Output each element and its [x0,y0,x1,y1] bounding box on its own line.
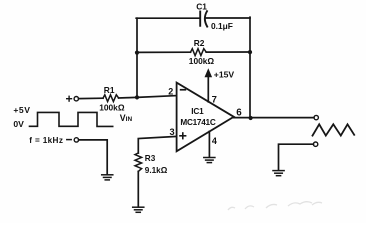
wire: R2 row right segment [206,51,250,53]
svg-text:MC1741C: MC1741C [180,118,215,127]
svg-text:9.1kΩ: 9.1kΩ [145,166,168,175]
svg-text:C1: C1 [196,1,207,11]
faint scan artifacts bottom [228,202,322,210]
source - terminal circle [74,138,78,142]
junction dot (output / right rail) [249,116,253,120]
junction dot (R1 / left rail) [135,95,139,99]
junction dot (left rail / R2) [135,51,139,55]
wire: R3 to ground [137,171,139,206]
svg-text:4: 4 [212,136,217,146]
wire: left rail vertical [136,18,138,97]
ground symbol (output return) [273,171,284,176]
wire: right rail vertical [249,17,251,118]
op-amp pin4 line [208,131,210,157]
+ sign at source [67,96,72,101]
svg-text:2: 2 [168,87,173,97]
svg-text:VIN: VIN [120,113,133,123]
wire: bottom terminal to ground [279,144,314,170]
wire: top horizontal right of C1 [206,17,250,19]
svg-text:R3: R3 [145,154,156,163]
svg-text:0V: 0V [13,119,24,129]
svg-text:+15V: +15V [214,70,235,80]
ground symbol (pin 4) [204,158,215,163]
capacitor C1 [200,11,207,26]
svg-text:+5V: +5V [13,105,30,115]
resistor R2 zigzag [191,49,207,56]
- sign at source [67,139,71,141]
junction dot (right rail / R2) [248,50,252,54]
svg-text:f = 1kHz: f = 1kHz [29,136,63,145]
triangle-wave output symbol [313,124,355,135]
wire: output from pin 6 [234,117,314,119]
wire: R1 input run to op-amp [79,97,103,99]
op-amp minus input sign [180,89,186,91]
resistor R3 zigzag (vertical) [135,153,142,171]
resistor R1 zigzag [103,95,119,102]
output terminal circle (top) [314,115,318,119]
svg-text:100kΩ: 100kΩ [99,103,125,113]
wire: pin 3 run [138,136,176,153]
op-amp plus input sign [179,132,186,139]
op-amp IC1 triangle [177,83,234,152]
svg-text:R1: R1 [104,85,115,95]
output terminal circle (bottom) [313,142,317,146]
ground symbol (source return) [102,175,113,180]
ground symbol (R3) [133,207,144,212]
wire: R2 row left segment [137,51,191,53]
+15V arrowhead [205,68,213,77]
svg-text:R2: R2 [194,38,205,48]
wire: - terminal to ground [79,140,108,174]
source + terminal circle [74,97,78,101]
svg-text:0.1μF: 0.1μF [211,21,233,31]
svg-text:6: 6 [236,108,242,119]
svg-text:IC1: IC1 [191,107,204,116]
wire: junction to pin 2 [119,96,177,98]
op-amp pin7 / +15V supply line [207,77,209,102]
svg-text:7: 7 [212,95,217,106]
square-wave input waveform [30,112,113,126]
wire: top horizontal left of C1 [136,17,200,19]
svg-text:100kΩ: 100kΩ [189,56,215,66]
svg-text:3: 3 [170,127,175,137]
